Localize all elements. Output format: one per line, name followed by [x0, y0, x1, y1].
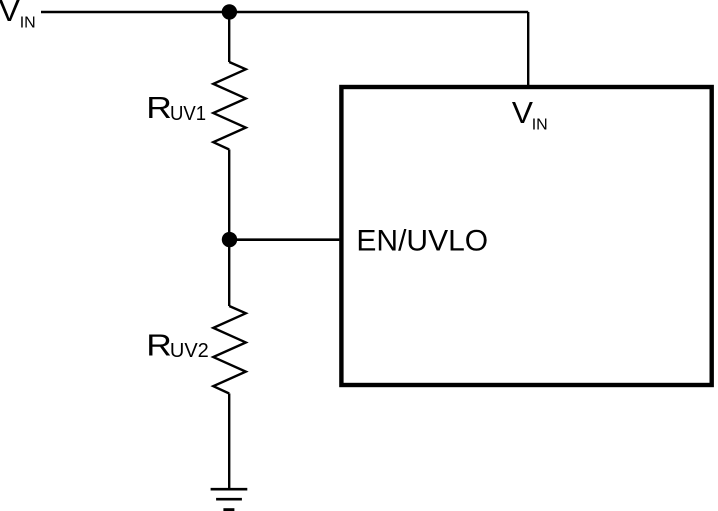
junction node EN (divider tap) [222, 232, 237, 247]
svg-text:IN: IN [20, 15, 36, 32]
IC U1 box [341, 87, 711, 385]
wire RUV1 bottom to EN node [228, 150, 230, 240]
label RUV1 [146, 91, 206, 125]
wire VIN horizontal (top rail) [41, 11, 528, 14]
svg-text:EN/UVLO: EN/UVLO [356, 225, 488, 258]
ground [211, 489, 248, 510]
svg-text:UV1: UV1 [170, 103, 206, 125]
svg-text:UV2: UV2 [170, 340, 209, 362]
wire EN node to RUV2 top [228, 240, 230, 306]
pin label VIN (IC top pin) [512, 96, 548, 133]
wire junction to RUV1 top [228, 12, 230, 62]
wire VIN drop to IC VIN pin [527, 12, 529, 87]
label RUV2 [146, 328, 209, 362]
net label VIN (input net, top-left) [0, 0, 36, 32]
svg-text:R: R [146, 328, 172, 362]
svg-text:V: V [512, 96, 534, 130]
pin label EN/UVLO [356, 225, 488, 258]
wire RUV2 bottom to ground [228, 394, 230, 490]
junction node VIN / RUV1 [222, 4, 237, 19]
wire EN node to EN/UVLO pin [229, 238, 339, 241]
resistor RUV1 [213, 62, 246, 150]
resistor RUV2 [213, 306, 246, 394]
svg-text:R: R [146, 91, 172, 125]
svg-text:IN: IN [532, 116, 548, 133]
svg-text:V: V [0, 0, 20, 28]
